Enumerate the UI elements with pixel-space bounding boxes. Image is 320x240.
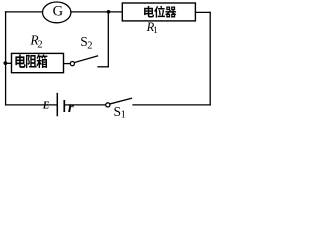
galvanometer G ellipse bbox=[43, 2, 71, 23]
svg-text:2: 2 bbox=[87, 41, 92, 52]
svg-text:2: 2 bbox=[37, 39, 42, 50]
switch S1 blade (open) bbox=[110, 98, 132, 104]
wire: S2 fixed contact up to junction A on top wire bbox=[107, 12, 109, 67]
label: potentiometer box text 电位器 bbox=[144, 6, 154, 17]
wire: battery to switch S1 bbox=[64, 104, 105, 106]
wire: resistance box to switch S2 bbox=[64, 63, 70, 65]
svg-text:r: r bbox=[68, 100, 74, 116]
junction A dot on top wire bbox=[107, 10, 111, 14]
wire: left border bbox=[5, 12, 7, 105]
wire: left border junction to resistance box bbox=[6, 62, 12, 64]
potentiometer box U1 (dianweiqi) bbox=[122, 3, 195, 21]
wire: right border bbox=[209, 12, 211, 105]
svg-text:1: 1 bbox=[121, 109, 126, 120]
switch S1 movable contact circle bbox=[106, 103, 110, 107]
svg-text:G: G bbox=[53, 4, 64, 20]
battery E long plate bbox=[56, 94, 58, 116]
svg-text:E: E bbox=[42, 101, 50, 112]
label: resistance box text 电阻箱 bbox=[15, 54, 25, 67]
junction B dot on left border bbox=[4, 61, 8, 65]
battery E short plate bbox=[63, 101, 65, 111]
resistance box R2 (dianzuxiang) bbox=[12, 53, 64, 72]
svg-text:1: 1 bbox=[153, 25, 158, 35]
wire: switch S1 to bottom right corner bbox=[133, 104, 210, 106]
wire: bottom left segment to battery bbox=[6, 104, 58, 106]
wire: potentiometer box to right border bbox=[196, 11, 211, 13]
wire: galvanometer to junction A and potentiometer box bbox=[71, 11, 122, 13]
switch S2 blade (open) bbox=[75, 56, 98, 63]
wire: top left to galvanometer bbox=[6, 11, 43, 13]
switch S2 movable contact circle bbox=[70, 62, 74, 66]
switch S2 fixed contact stub bbox=[98, 66, 108, 68]
